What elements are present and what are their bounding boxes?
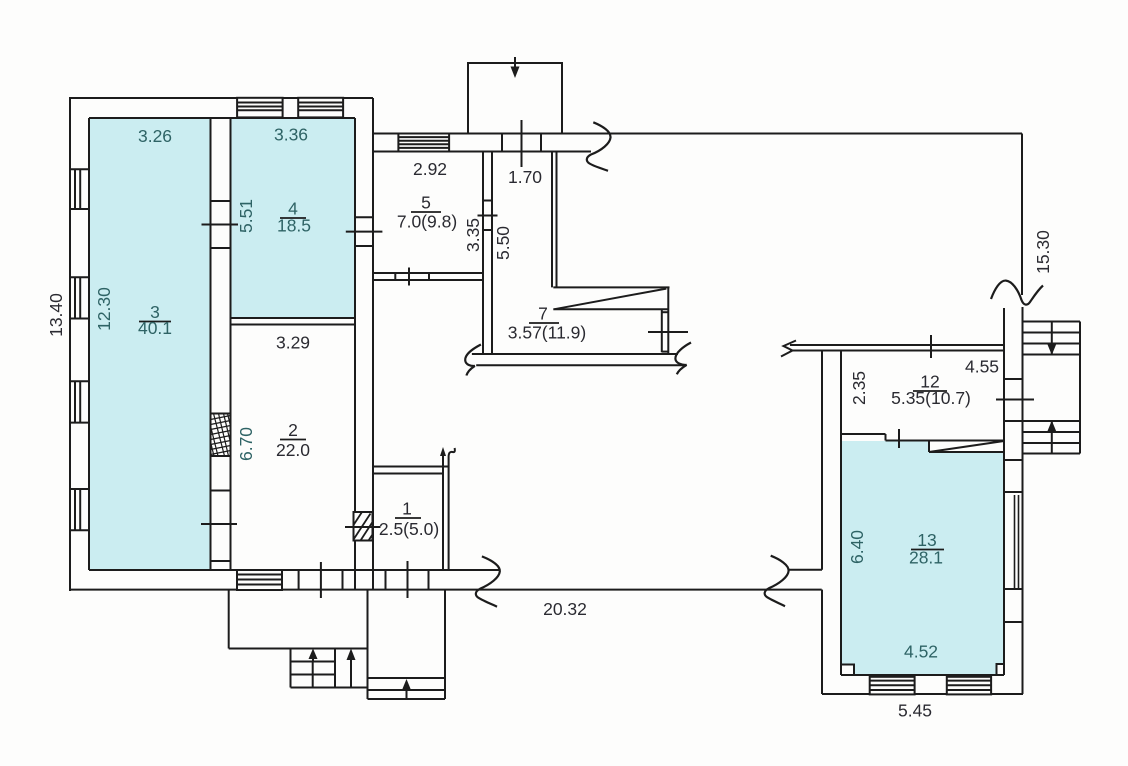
wall right inner x355 [354,118,356,590]
porch 1 arrow small [309,649,318,662]
staircase up arrow [1047,421,1056,432]
stove flue crosshatched block partition 3|2 [211,414,231,457]
room 7 bottom wall lower line [476,364,686,366]
porch 1 arrow long [347,649,356,688]
porch 2 arrow [402,679,411,699]
break arrow right block top wall [781,341,796,357]
room 13 corner pier left [842,665,854,676]
porch 2 left edge [367,590,369,699]
svg-text:18.5: 18.5 [277,216,311,236]
break wavy room 7 bottom wall left end [465,345,481,376]
room 5 bottom wall upper line [373,272,483,274]
entry porch arrow [514,57,516,70]
staircase right edge [1079,322,1081,454]
svg-text:28.1: 28.1 [909,548,943,568]
room 3 fill [89,118,211,570]
porch 1 steps [291,649,368,688]
right block right wall right line [1022,307,1024,694]
room 7 right wall caps [662,311,669,313]
wall bottom inner (left block) [89,569,499,571]
svg-text:2.5(5.0): 2.5(5.0) [379,519,439,539]
break wavy right wall 15.30 [991,281,1043,305]
room 7 ramp bottom line [553,308,669,310]
svg-text:3.57(11.9): 3.57(11.9) [508,323,586,343]
porch 1 bottom edge [229,648,368,650]
staircase upper flight [1023,322,1080,355]
window W5 top wall [237,98,283,118]
porch 1 left edge [228,590,230,649]
partition rooms 5|7 left line [482,152,484,355]
svg-text:4.55: 4.55 [965,357,999,377]
svg-text:5.35(10.7): 5.35(10.7) [891,388,971,408]
right block top wall upper line [790,344,1004,346]
door B bottom wall edges [386,561,429,598]
wall top outer (left block) [69,97,373,99]
room 7 ramp top line [553,286,669,288]
right block left wall outer line lower [821,590,823,694]
wall left outer [69,97,71,591]
room 13 ramp left edge [928,441,930,453]
svg-text:2.92: 2.92 [413,159,447,179]
staircase down arrow [1047,344,1056,355]
room 1 right wall right line with hook [449,448,455,570]
svg-text:3.29: 3.29 [276,333,310,353]
svg-text:22.0: 22.0 [276,440,310,460]
door room 5 bottom wall [395,268,429,286]
svg-text:12.30: 12.30 [94,287,114,331]
room 1 right wall left line with arrow [442,453,444,570]
hatched pier room 1|2 wall [345,512,381,541]
room 13 ramp diagonal [929,441,1004,452]
right block left wall outer line upper [821,351,823,570]
svg-text:6.70: 6.70 [236,427,256,461]
right block bottom wall outer line [822,693,1023,695]
svg-text:3.35: 3.35 [463,218,483,252]
partition rooms 12|13 door tick [898,429,900,448]
room 7 right wall window tick [648,331,688,333]
svg-text:2.35: 2.35 [849,371,869,405]
svg-text:6.40: 6.40 [847,530,867,564]
window W2 left wall [70,277,89,318]
right block top wall tick [930,335,932,358]
room 13 fill [841,441,1004,675]
corridor right wall left line [551,152,553,288]
svg-text:20.32: 20.32 [543,599,587,619]
svg-text:13.40: 13.40 [46,293,66,337]
room 5 bottom wall lower line [373,279,483,281]
svg-text:3.36: 3.36 [274,125,308,145]
svg-text:5.51: 5.51 [236,199,256,233]
room 7 right wall right line [667,287,669,353]
window right block wall gap [996,379,1034,421]
break wavy bottom wall left [476,556,500,606]
window W6 top wall [298,98,343,118]
partition rooms 12|13 lower line [886,440,1005,442]
room 13 ramp bottom line [929,451,1004,453]
room 1 top wall lower line [373,473,443,475]
partition rooms 12|13 step [885,434,887,441]
window room 13 right wall [1004,460,1023,622]
staircase lower flight [1023,421,1080,454]
wall left inner [88,118,90,570]
room 1 top wall upper line [373,466,449,468]
door 1.70 dimension line [521,120,523,167]
partition rooms 4|2 lower line [231,324,356,326]
room 13 ramp whiteout [929,441,1004,453]
svg-text:5.50: 5.50 [493,226,513,260]
room 13 corner pier right [997,664,1005,675]
window room 4 right wall [346,217,383,246]
svg-text:5: 5 [421,193,431,213]
door partition 5|7 ticks [478,201,498,231]
wall right outer x373 [372,98,374,590]
window B1 right block bottom wall [870,677,915,695]
window W1 left wall [70,169,89,209]
break wavy bottom wall right [765,556,789,607]
svg-text:1: 1 [402,499,412,519]
door partition 3|2 [201,491,237,562]
svg-text:15.30: 15.30 [1033,230,1053,274]
porch 2 right edge [444,590,446,699]
entry porch outline [468,63,562,134]
svg-text:7.0(9.8): 7.0(9.8) [397,212,457,232]
svg-text:7: 7 [538,304,548,324]
partition rooms 3|4 right line [230,118,232,570]
door A bottom wall edges [299,562,343,598]
room 7 bottom wall upper line [472,353,678,355]
porch 2 steps [368,678,446,699]
break wavy room 7 bottom wall right end [675,343,691,375]
corridor top wall upper line [373,133,1022,135]
window W4 left wall [70,489,89,530]
room 4 fill [231,118,356,318]
svg-text:5.45: 5.45 [898,701,932,721]
partition rooms 4|2 upper line [231,317,356,319]
window W8 corridor top wall [398,134,449,152]
partition rooms 3|4 left line [210,118,212,570]
svg-text:2: 2 [288,420,298,440]
door partition 3|4 [202,201,239,248]
room 7 ramp diagonal [555,289,667,310]
svg-text:4.52: 4.52 [904,642,938,662]
window W7 bottom wall [237,570,282,590]
window W3 left wall [70,381,89,422]
wall top inner (left block) [89,117,355,119]
partition rooms 5|7 right line [491,152,493,355]
right block right wall left line [1003,308,1005,675]
window B2 right block bottom wall [947,677,991,695]
bottom wall link line to right block [789,569,822,571]
right block left wall inner line [840,351,842,676]
right outer wall line 15.30 [1021,134,1023,296]
svg-text:3.26: 3.26 [138,126,172,146]
wall bottom outer continuous 20.32 line [69,589,822,591]
corridor top wall lower line [373,151,591,153]
break wavy top wall [587,122,611,171]
right block bottom wall inner line [841,674,1004,676]
room 7 right wall left line [661,309,663,352]
svg-text:1.70: 1.70 [508,167,542,187]
right block top wall lower line [790,350,1004,352]
svg-text:40.1: 40.1 [138,318,172,338]
partition rooms 12|13 upper line [841,433,886,435]
door entrance edges [501,134,503,152]
corridor right wall right line [556,152,558,288]
